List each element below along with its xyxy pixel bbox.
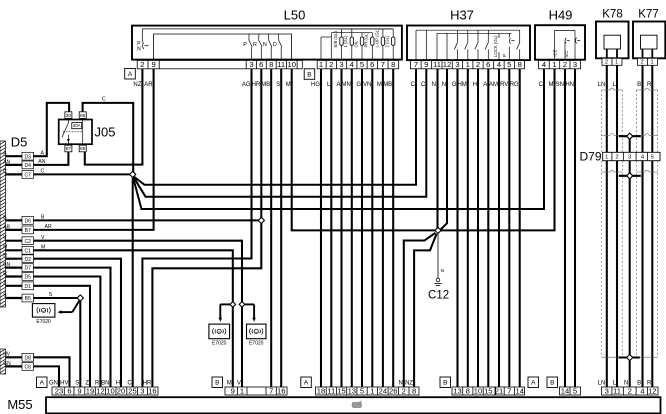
junction node N xyxy=(435,227,441,233)
svg-text:E7020: E7020 xyxy=(212,341,227,347)
wire VN: L50B-6 to M55 xyxy=(363,69,372,387)
svg-text:21: 21 xyxy=(495,386,503,395)
svg-text:A: A xyxy=(483,82,487,88)
M55 pin strips xyxy=(52,386,658,395)
svg-text:M: M xyxy=(286,82,291,88)
wire C: node C down to M55-25 xyxy=(127,176,132,387)
svg-text:12: 12 xyxy=(648,386,656,395)
horn E7020 (mid-right) xyxy=(247,324,267,346)
wire A: L50B-3 to M55 xyxy=(336,69,341,387)
svg-text:MB: MB xyxy=(383,82,392,88)
connector K78 box xyxy=(596,8,629,58)
svg-text:N: N xyxy=(263,42,267,48)
connector H37 outer box xyxy=(407,8,530,61)
junction on wire M xyxy=(230,302,236,308)
wire L: K78-1 to M55-11 xyxy=(613,65,617,387)
svg-text:HN: HN xyxy=(565,82,574,88)
svg-text:M: M xyxy=(3,245,7,251)
svg-text:9: 9 xyxy=(231,386,235,395)
wire A: H37 to M55 xyxy=(483,69,488,387)
H37 pin7 internal xyxy=(415,30,417,60)
svg-text:6: 6 xyxy=(67,386,71,395)
svg-text:P: P xyxy=(243,42,247,48)
svg-text:5: 5 xyxy=(507,60,511,69)
svg-text:16: 16 xyxy=(277,386,285,395)
boxed label A (bottom x=36.5) xyxy=(37,377,48,388)
svg-text:M: M xyxy=(549,82,554,88)
svg-text:BN: BN xyxy=(3,262,10,268)
svg-text:AR: AR xyxy=(144,82,153,88)
wire NZ: node N to M55-8 xyxy=(405,234,437,387)
H37 internal bus 2 xyxy=(437,32,511,34)
svg-text:B: B xyxy=(550,380,554,387)
svg-text:H: H xyxy=(3,253,7,259)
relay J05 xyxy=(59,112,116,152)
junction node B xyxy=(258,217,264,223)
svg-text:N: N xyxy=(442,82,446,88)
svg-text:D3: D3 xyxy=(24,154,31,160)
svg-text:S: S xyxy=(49,292,53,298)
wire BN: D5-D7 to M55-10 xyxy=(34,268,111,387)
svg-text:MN: MN xyxy=(341,82,350,88)
svg-text:23: 23 xyxy=(55,386,63,395)
wire N: H37-12 to node N xyxy=(441,69,447,230)
svg-text:3: 3 xyxy=(628,155,631,161)
svg-text:K78: K78 xyxy=(602,8,622,20)
svg-text:2: 2 xyxy=(563,60,567,69)
svg-text:C: C xyxy=(421,82,426,88)
wire A: D5-D3 to J05-30 xyxy=(34,103,70,156)
H49 pin1 internal xyxy=(554,30,556,60)
svg-text:12: 12 xyxy=(96,386,104,395)
H37 internal bus 1 xyxy=(416,29,520,31)
svg-text:D8: D8 xyxy=(24,355,31,361)
wire B: K77-2 to M55-4 xyxy=(637,65,642,387)
wire C branch to H49-4 xyxy=(133,69,544,209)
D5 hatched continuation bars xyxy=(0,138,6,377)
svg-text:C2: C2 xyxy=(24,239,31,245)
arrow branch to E7020 mid-left xyxy=(219,304,231,321)
H37 pin11 internal xyxy=(436,33,438,60)
svg-text:C: C xyxy=(41,169,45,175)
svg-text:13: 13 xyxy=(348,386,356,395)
svg-text:LOCK (GL): LOCK (GL) xyxy=(493,35,498,57)
svg-text:7: 7 xyxy=(414,60,418,69)
horn E7020 (mid-left) xyxy=(209,324,230,346)
svg-text:RG: RG xyxy=(510,82,519,88)
wire M: L50-10 to H49-1 bus xyxy=(286,69,555,231)
svg-text:D: D xyxy=(273,42,277,48)
wire Z: D5-D1 to M55-19 xyxy=(34,286,91,387)
wire C: D5-C7 to node C xyxy=(34,169,132,175)
svg-text:8: 8 xyxy=(466,386,470,395)
H37 switches (pins 3,1,2,6) xyxy=(454,30,488,60)
svg-text:GN: GN xyxy=(3,361,11,367)
K78 pin stubs xyxy=(607,49,617,58)
svg-text:25: 25 xyxy=(128,386,136,395)
wire AR: D5-B7 to L50A-9 xyxy=(34,69,154,230)
svg-text:M55: M55 xyxy=(7,397,32,412)
svg-text:A: A xyxy=(41,150,45,156)
svg-text:E/B (GL): E/B (GL) xyxy=(333,31,338,48)
wire C: J05-86 to node C xyxy=(83,97,134,172)
svg-text:1 (GL): 1 (GL) xyxy=(343,35,348,47)
svg-text:30: 30 xyxy=(66,113,72,119)
L50 internal P/N contact at pin 2 xyxy=(137,29,149,53)
H37 pin9 internal xyxy=(425,30,427,60)
wire HR: L50-6 to M55A-16 xyxy=(143,69,262,387)
svg-text:8: 8 xyxy=(391,60,395,69)
svg-text:K77: K77 xyxy=(638,8,658,20)
svg-text:P: P xyxy=(502,54,507,57)
svg-text:3: 3 xyxy=(605,386,609,395)
svg-text:C6: C6 xyxy=(24,365,31,371)
L50 indicator lamps xyxy=(333,28,395,61)
connector L50 outer box xyxy=(132,8,402,60)
svg-text:VN: VN xyxy=(363,82,371,88)
svg-text:B5: B5 xyxy=(25,296,31,302)
svg-text:1: 1 xyxy=(650,60,653,66)
svg-text:14: 14 xyxy=(515,386,523,395)
svg-text:3: 3 xyxy=(339,60,343,69)
svg-text:J05: J05 xyxy=(95,125,116,140)
svg-text:5: 5 xyxy=(360,60,364,69)
wire MB: L50-8 to M55B-7 xyxy=(261,69,271,387)
svg-text:R: R xyxy=(253,42,257,48)
svg-text:2: 2 xyxy=(628,386,632,395)
wire N shield drain to M55-2r xyxy=(624,136,630,387)
ECU M55 box xyxy=(7,397,660,413)
svg-text:B: B xyxy=(637,82,641,88)
svg-text:MB: MB xyxy=(261,82,270,88)
svg-text:H: H xyxy=(473,82,477,88)
L50 selector switches P R N D xyxy=(243,34,282,60)
svg-text:D4: D4 xyxy=(24,163,31,169)
svg-text:HR: HR xyxy=(252,82,261,88)
svg-text:B: B xyxy=(443,380,447,387)
svg-text:HV: HV xyxy=(3,352,11,358)
K77 pin stubs xyxy=(643,49,653,58)
shielded cable indication (dashed) xyxy=(602,88,658,357)
svg-text:D1: D1 xyxy=(24,284,31,290)
svg-text:12: 12 xyxy=(443,60,451,69)
boxed label A (under L50 pins 2,9) xyxy=(125,69,136,80)
svg-text:5: 5 xyxy=(651,155,654,161)
svg-text:4: 4 xyxy=(497,60,501,69)
svg-text:1: 1 xyxy=(370,386,374,395)
svg-text:E7020: E7020 xyxy=(249,341,264,347)
svg-text:9: 9 xyxy=(151,60,155,69)
svg-text:4: 4 xyxy=(542,60,546,69)
svg-text:OIL: OIL xyxy=(353,40,358,47)
svg-text:2 (GL): 2 (GL) xyxy=(385,35,390,47)
svg-text:85: 85 xyxy=(80,146,86,152)
connector K77 box xyxy=(633,8,665,58)
svg-text:9: 9 xyxy=(424,60,428,69)
K77 pin strip xyxy=(638,58,658,65)
svg-text:6: 6 xyxy=(370,60,374,69)
svg-text:2: 2 xyxy=(402,386,406,395)
svg-text:AN: AN xyxy=(3,159,10,165)
boxed label B (bottom x=547) xyxy=(547,377,558,388)
wire HN: H49-3 to M55-5 xyxy=(565,69,575,387)
svg-text:RV: RV xyxy=(500,82,508,88)
wire V: D5-C2 to M55B-1 xyxy=(34,235,243,387)
svg-text:AM: AM xyxy=(489,82,498,88)
svg-text:N: N xyxy=(432,82,436,88)
svg-text:LN: LN xyxy=(598,82,606,88)
wire HG: L50B-1 to M55 xyxy=(311,69,321,387)
svg-text:4: 4 xyxy=(640,386,644,395)
connector strip D79 xyxy=(579,149,660,163)
svg-text:D2: D2 xyxy=(24,257,31,263)
boxed label B (bottom x=440) xyxy=(440,377,451,388)
svg-text:R: R xyxy=(3,271,7,277)
wire S: L50-11 to M55B-16 xyxy=(276,69,281,387)
svg-text:Z: Z xyxy=(3,280,6,286)
svg-text:L-UP (GL): L-UP (GL) xyxy=(374,28,379,48)
svg-text:C12: C12 xyxy=(428,290,449,302)
svg-text:3: 3 xyxy=(573,60,577,69)
wire RV: H37 to M55 xyxy=(500,69,509,387)
boxed label B (bottom x=212) xyxy=(212,377,223,388)
svg-text:10: 10 xyxy=(106,386,114,395)
svg-text:30A: 30A xyxy=(73,123,81,128)
shield junction bottom xyxy=(619,354,640,360)
svg-text:4: 4 xyxy=(350,60,354,69)
svg-text:1: 1 xyxy=(605,155,608,161)
svg-text:AR: AR xyxy=(3,224,10,230)
svg-text:2: 2 xyxy=(615,155,618,161)
svg-text:8: 8 xyxy=(412,386,416,395)
svg-text:11: 11 xyxy=(433,60,441,69)
wire GN: D5-C6 to M55-23 xyxy=(34,366,60,387)
svg-text:6: 6 xyxy=(259,60,263,69)
svg-text:3: 3 xyxy=(455,60,459,69)
svg-text:7: 7 xyxy=(269,386,273,395)
svg-text:26: 26 xyxy=(389,386,397,395)
boxed label B (under L50 section B) xyxy=(304,69,315,80)
svg-text:B7: B7 xyxy=(25,228,31,234)
svg-text:5: 5 xyxy=(573,386,577,395)
svg-text:11: 11 xyxy=(277,60,285,69)
wire S: D5-B5 to M55-9 xyxy=(34,292,81,387)
svg-text:24: 24 xyxy=(379,386,387,395)
wire AN: D5-D4 to J05-87 xyxy=(34,152,69,165)
svg-text:HM: HM xyxy=(457,82,466,88)
connector D5 title xyxy=(11,135,28,150)
svg-text:N: N xyxy=(137,47,141,53)
wire SN: H49-2 to M55-14 xyxy=(556,69,565,387)
wire AG: L50-3 to M55-3 xyxy=(142,69,251,387)
wire HV: D5-D8 to M55-6 xyxy=(34,357,70,387)
H49 pin strip xyxy=(539,60,581,69)
arrow branch to E7020 mid-right xyxy=(244,304,256,321)
svg-text:HG: HG xyxy=(311,82,320,88)
svg-text:2: 2 xyxy=(641,60,644,66)
wire HM: H37 to M55 xyxy=(457,69,467,387)
wire H: D5-D2 to M55-20 xyxy=(34,259,122,387)
svg-text:D7: D7 xyxy=(24,266,31,272)
wire LN: K78-2 to M55-3 xyxy=(598,65,607,387)
svg-text:A: A xyxy=(304,380,309,387)
svg-text:M: M xyxy=(41,245,45,251)
H37 switch pin 8 xyxy=(517,30,520,60)
svg-text:1: 1 xyxy=(466,60,470,69)
svg-text:PR (GL): PR (GL) xyxy=(364,32,369,48)
wire C branch to H37-9 xyxy=(133,69,426,197)
svg-text:87: 87 xyxy=(66,146,72,152)
svg-text:2: 2 xyxy=(605,60,608,66)
svg-text:N: N xyxy=(441,268,445,274)
svg-text:H49: H49 xyxy=(549,8,573,23)
svg-text:A: A xyxy=(128,71,133,78)
L50 pin1-pin2 internal link xyxy=(321,33,331,61)
svg-text:R: R xyxy=(647,82,652,88)
svg-text:B: B xyxy=(307,72,311,79)
horn E7020 (left) xyxy=(32,304,55,325)
svg-text:A: A xyxy=(336,82,340,88)
svg-text:11: 11 xyxy=(613,386,621,395)
svg-text:G: G xyxy=(452,82,457,88)
svg-text:B: B xyxy=(215,380,219,387)
wire H: H37 to M55 xyxy=(473,69,478,387)
H37 pin12 internal xyxy=(446,33,448,60)
L50 pin strip B xyxy=(317,60,399,69)
svg-text:D5: D5 xyxy=(11,135,28,150)
wire AM: H37 to M55 xyxy=(489,69,499,387)
shield junction above D79 xyxy=(619,133,641,139)
svg-text:1: 1 xyxy=(240,386,244,395)
wire RG: H37 to M55 xyxy=(510,69,520,387)
svg-text:AG: AG xyxy=(242,82,251,88)
svg-text:18: 18 xyxy=(317,386,325,395)
wire MB: L50B-8 to M55 xyxy=(383,69,393,387)
svg-text:ICE: ICE xyxy=(553,49,558,56)
svg-text:7: 7 xyxy=(507,386,511,395)
svg-text:1: 1 xyxy=(319,60,323,69)
svg-text:A: A xyxy=(531,380,536,387)
L50 internal top bus xyxy=(142,28,393,30)
H49 internal bus xyxy=(555,29,576,31)
svg-text:B: B xyxy=(41,215,45,221)
wire N: H37-11 to node N xyxy=(432,69,438,228)
svg-text:SN: SN xyxy=(556,82,564,88)
svg-text:C: C xyxy=(411,82,416,88)
wire B: D5-D6 to node B xyxy=(34,215,260,221)
svg-text:8: 8 xyxy=(518,60,522,69)
wire NZ: J05-85 to L50A-2 xyxy=(85,69,143,165)
svg-text:G: G xyxy=(356,82,361,88)
wire G: L50B-5 to M55 xyxy=(356,69,362,387)
boxed label A (bottom x=528) xyxy=(528,377,539,388)
wire M: D5-C1 to M55B-9 xyxy=(34,245,233,388)
wire N: node N to M55-2 xyxy=(398,233,435,387)
H37 LOCK switch pin 4 xyxy=(493,33,499,60)
svg-text:19: 19 xyxy=(86,386,94,395)
svg-text:1: 1 xyxy=(615,60,618,66)
svg-text:11: 11 xyxy=(327,386,335,395)
svg-text:AN: AN xyxy=(38,159,45,165)
svg-text:D5: D5 xyxy=(24,275,31,281)
svg-text:M: M xyxy=(377,82,382,88)
svg-text:86: 86 xyxy=(80,113,86,119)
svg-text:10: 10 xyxy=(474,386,482,395)
svg-text:S: S xyxy=(276,82,280,88)
wire C branch to H37-7 xyxy=(134,69,416,185)
svg-text:NZ: NZ xyxy=(133,82,141,88)
svg-text:7: 7 xyxy=(381,60,385,69)
svg-text:16: 16 xyxy=(148,386,156,395)
svg-text:C: C xyxy=(3,169,7,175)
shield junction below D79 xyxy=(619,173,641,179)
svg-text:C: C xyxy=(539,82,544,88)
svg-text:D6: D6 xyxy=(24,219,31,225)
svg-text:C1: C1 xyxy=(24,248,31,254)
svg-text:C: C xyxy=(102,97,106,103)
wire G: H37 to M55 xyxy=(452,69,458,387)
svg-text:L50: L50 xyxy=(284,8,306,23)
wire S branch arrow to E7020 xyxy=(58,301,80,314)
svg-text:10: 10 xyxy=(287,60,295,69)
svg-text:15: 15 xyxy=(484,386,492,395)
svg-text:9: 9 xyxy=(77,386,81,395)
L50 inner box (pins 9-10) xyxy=(154,34,292,60)
K78 pin strip xyxy=(602,58,622,65)
junction node C xyxy=(130,171,136,177)
svg-text:V: V xyxy=(41,235,45,241)
wire L: L50B-2 to M55 xyxy=(327,69,331,387)
svg-text:5: 5 xyxy=(360,386,364,395)
H37 pin strip xyxy=(411,60,525,69)
svg-text:20: 20 xyxy=(117,386,125,395)
svg-text:8: 8 xyxy=(269,60,273,69)
svg-text:A: A xyxy=(40,380,45,387)
ground C12 xyxy=(428,234,449,302)
boxed label A (bottom x=300.8) xyxy=(301,377,312,388)
svg-text:D79: D79 xyxy=(579,149,601,163)
wire R: K77-1 to M55-12r xyxy=(647,65,652,387)
svg-text:3: 3 xyxy=(249,60,253,69)
L50 pin strip A/mid xyxy=(137,60,302,69)
connector H49 outer box xyxy=(535,8,585,60)
junction node S xyxy=(77,295,83,301)
svg-text:14: 14 xyxy=(561,386,569,395)
svg-text:C7: C7 xyxy=(24,173,31,179)
svg-text:H37: H37 xyxy=(450,8,474,23)
wire M: L50B-7 to M55 xyxy=(377,69,383,387)
H37 P contact pin 5 xyxy=(502,33,514,60)
svg-text:15: 15 xyxy=(337,386,345,395)
svg-text:E7020: E7020 xyxy=(36,319,51,325)
svg-text:13: 13 xyxy=(453,386,461,395)
D5 pin boxes and stubs xyxy=(3,151,33,371)
svg-text:2: 2 xyxy=(329,60,333,69)
svg-text:2: 2 xyxy=(476,60,480,69)
svg-text:AR: AR xyxy=(45,224,52,230)
svg-text:3: 3 xyxy=(140,386,144,395)
wire MN: L50B-4 to M55 xyxy=(341,69,351,387)
svg-text:1: 1 xyxy=(552,60,556,69)
H49 pin3 internal xyxy=(574,30,576,60)
wire R: D5-D5 to M55-12 xyxy=(34,277,101,388)
H49 pin2 internal + contacts xyxy=(553,38,581,61)
L50 lamp bus lines xyxy=(331,29,393,33)
svg-text:2: 2 xyxy=(140,60,144,69)
svg-text:6: 6 xyxy=(486,60,490,69)
junction on wire V xyxy=(239,302,245,308)
svg-text:S/C: S/C xyxy=(564,50,569,57)
